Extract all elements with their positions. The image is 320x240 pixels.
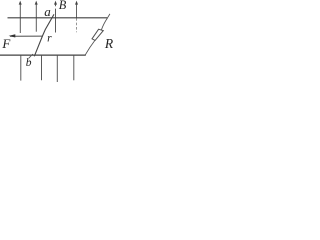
svg-text:R: R (104, 36, 114, 51)
resistor R body (92, 29, 103, 40)
field line 4 lower segment (73, 56, 75, 81)
field line B arrow 4 upper segment (75, 1, 78, 33)
svg-text:B: B (59, 0, 67, 12)
front rail (bottom edge of plane) (0, 54, 86, 56)
field line 3 lower segment (56, 56, 58, 82)
right edge lower lead from resistor (85, 40, 95, 54)
back rail (top edge of plane) (8, 17, 108, 19)
svg-text:F: F (1, 36, 11, 51)
right edge upper lead to resistor (101, 18, 107, 30)
svg-text:a: a (44, 4, 51, 19)
field line 2 lower segment (41, 56, 43, 81)
field line B arrow 2 upper segment (35, 1, 38, 32)
field line B arrow 1 upper segment (19, 1, 22, 33)
corner overshoot tick top right (108, 14, 110, 18)
conducting rod ab (34, 14, 54, 56)
svg-text:b: b (26, 57, 32, 69)
svg-text:r: r (47, 33, 52, 45)
field line 1 lower segment (20, 56, 22, 81)
field line B arrow 3 upper segment (54, 1, 57, 33)
force arrow F shaft (10, 35, 43, 37)
tick near b (29, 54, 33, 58)
force arrow F head (9, 34, 16, 37)
